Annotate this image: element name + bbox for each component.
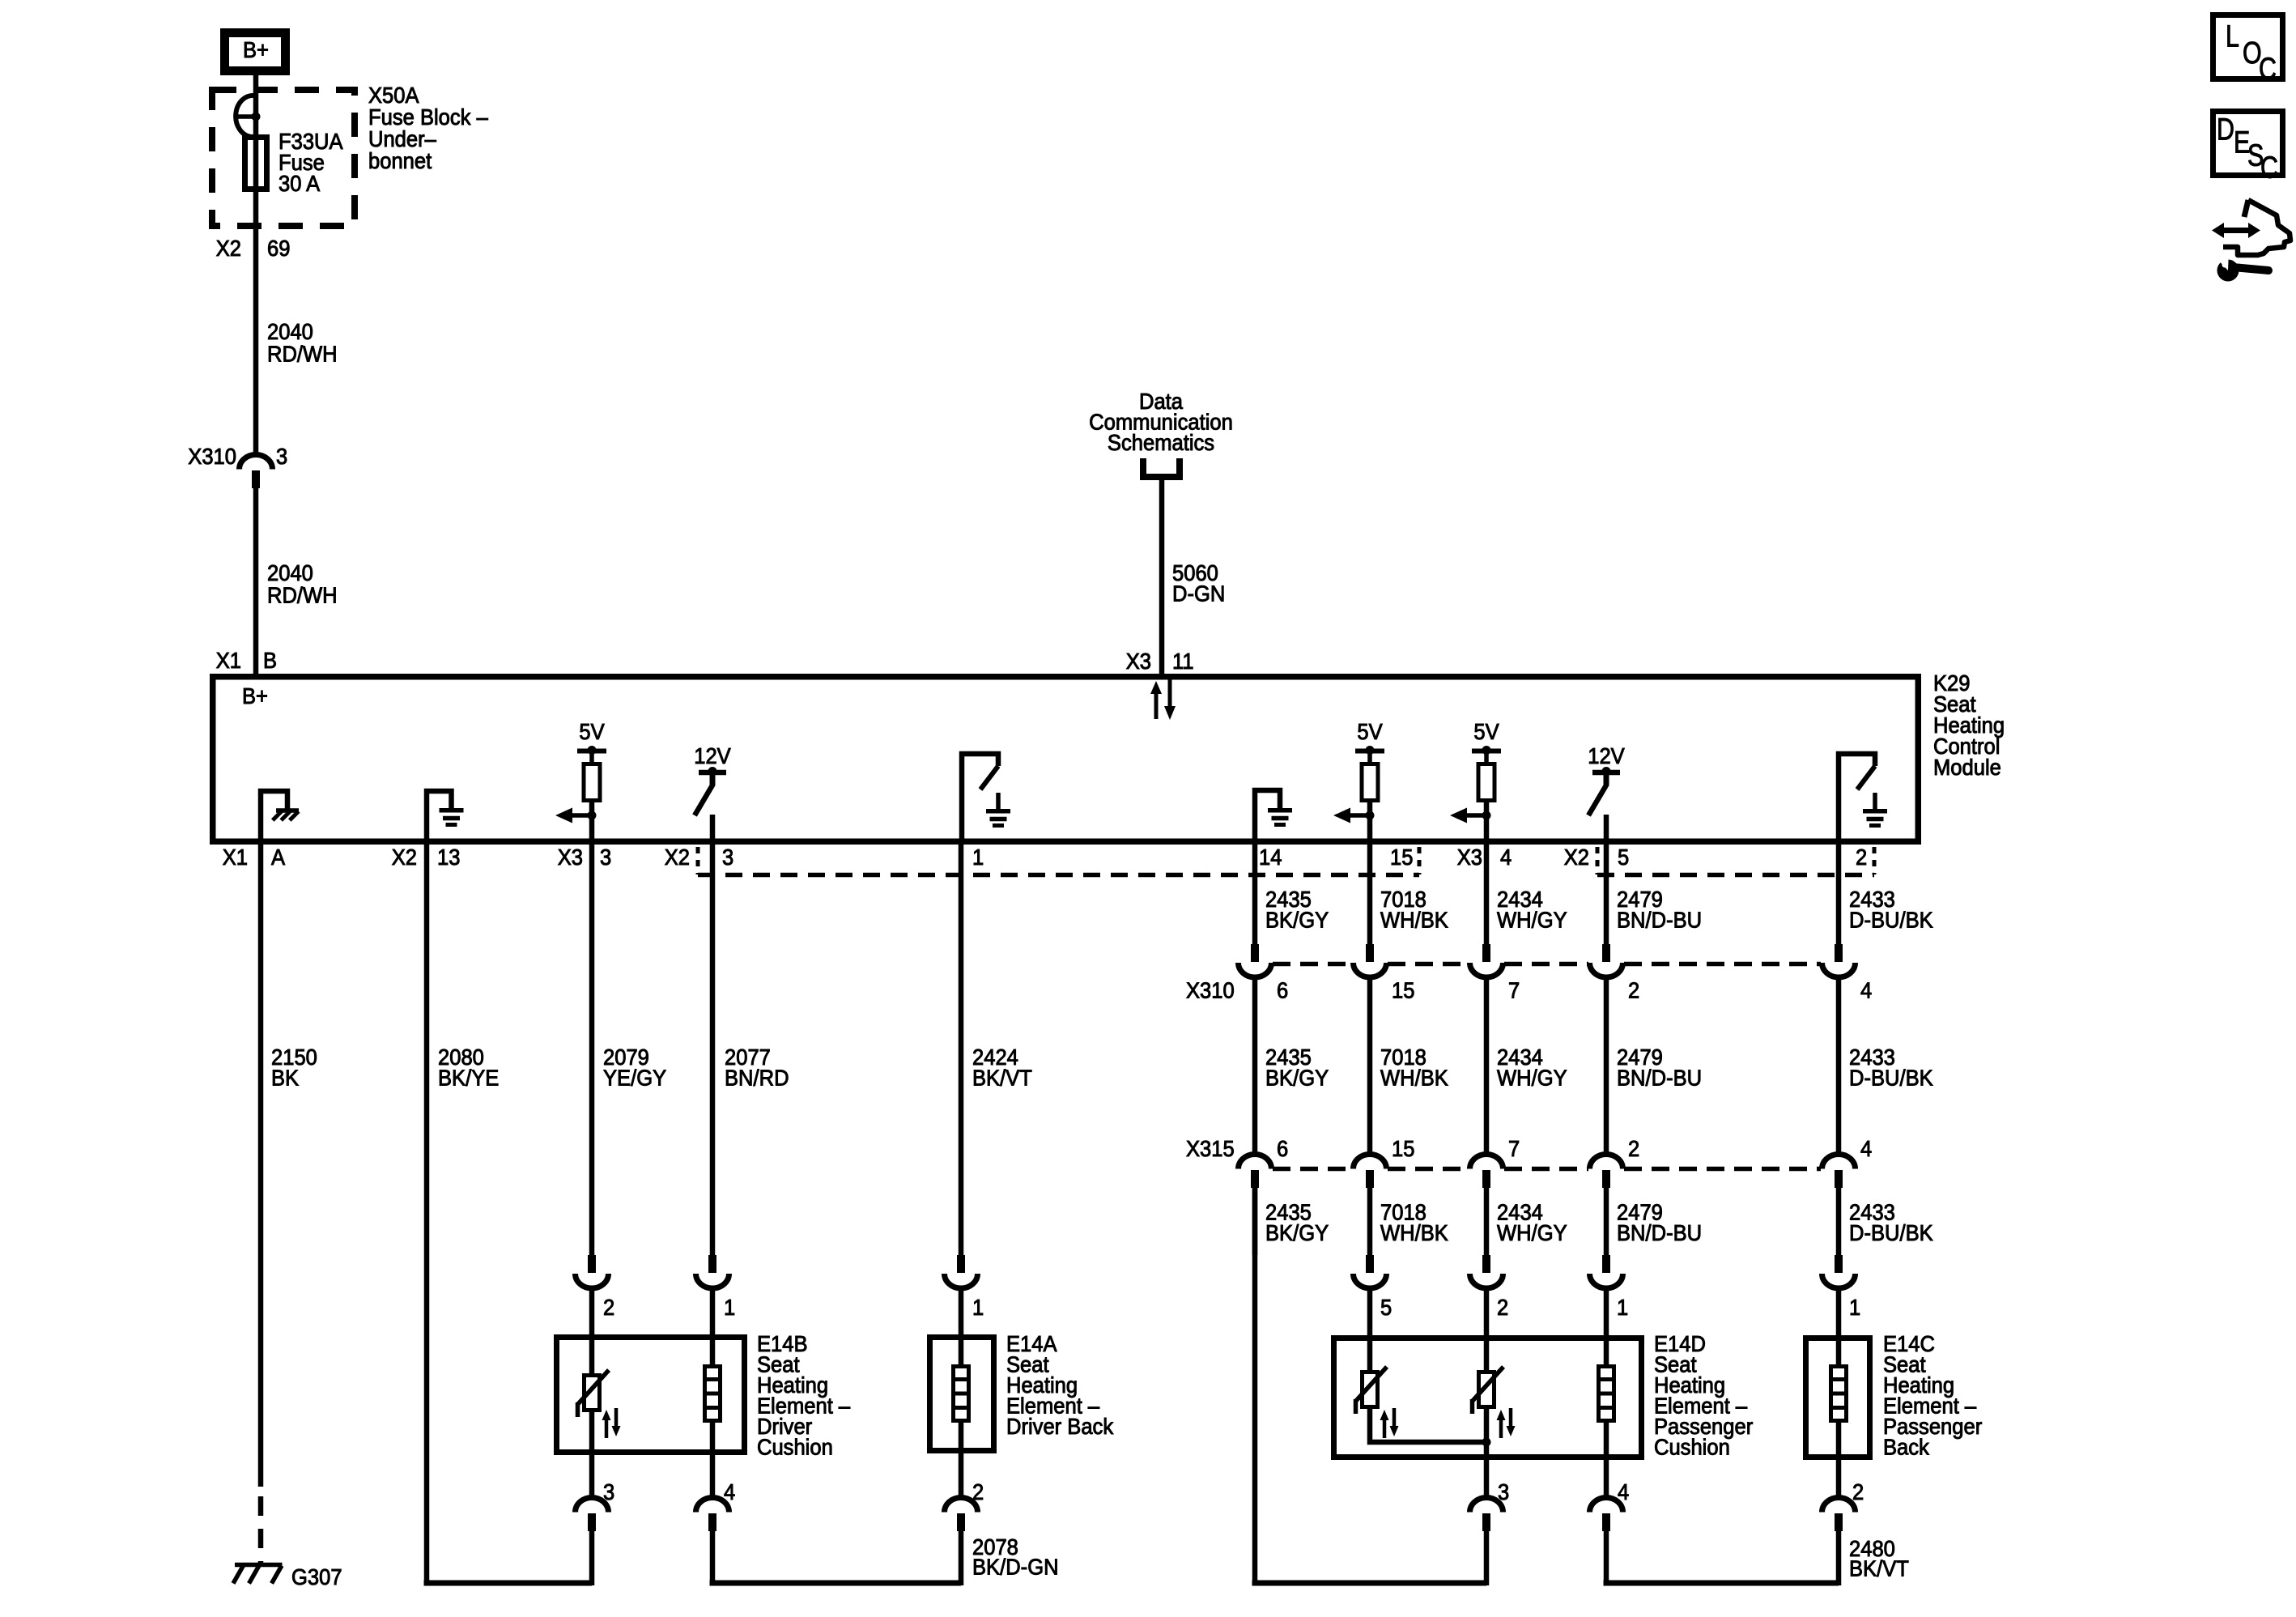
wire label 7018 WH/BK (row 3): [1380, 1200, 1448, 1246]
wire 2079 YE/GY (pin X3-3 to E14B pin 2): [589, 843, 595, 1255]
5V supply bar/tap: [577, 749, 606, 754]
12V supply label at x=880: [694, 743, 731, 768]
wire label 7018 WH/BK (row 1): [1380, 887, 1448, 933]
svg-text:X1: X1: [216, 648, 241, 673]
heating element resistor: [1599, 1367, 1614, 1421]
element E14A label: [1006, 1331, 1114, 1439]
wire below switch: [710, 815, 716, 844]
5V supply label at x=731: [579, 719, 605, 744]
sense arrow: [572, 813, 592, 818]
wire below resistor: [1484, 802, 1490, 844]
pin label X3 (module): [1126, 649, 1151, 674]
pin label X1 (module): [216, 648, 241, 673]
pin label 1 (E14C): [1849, 1295, 1860, 1320]
pin label 1 (E14B): [724, 1295, 735, 1320]
inline connector on 2433 at E14C pin 1: [1835, 1255, 1843, 1273]
pin label 3: [722, 845, 733, 870]
E14B thermistor branch wire: [589, 1335, 595, 1375]
high-side switch blade: [695, 784, 713, 815]
module K29 Seat Heating Control Module box: [213, 677, 1919, 842]
connector below E14C pin 2: [1836, 1460, 1842, 1500]
connector below E14D pin 4: [1604, 1460, 1609, 1500]
pin label 2 (E14A): [972, 1479, 984, 1504]
svg-text:5: 5: [1618, 845, 1629, 870]
svg-text:15: 15: [1390, 845, 1413, 870]
pin label X3: [558, 845, 583, 870]
connector X310 pin 3 (inline): [240, 455, 273, 470]
wire label 2079 YE/GY: [603, 1045, 666, 1091]
high-side switch blade: [1588, 784, 1607, 815]
svg-text:4: 4: [1860, 978, 1872, 1003]
pin label X2: [665, 845, 690, 870]
thermistor (NTC): [585, 1376, 600, 1411]
pull-up resistor: [1362, 764, 1378, 801]
wire below resistor: [589, 802, 595, 844]
pin label 3 (E14D): [1498, 1479, 1509, 1504]
svg-text:15: 15: [1392, 978, 1414, 1003]
E14A heater wire: [959, 1335, 964, 1366]
svg-text:5060D-GN: 5060D-GN: [1172, 560, 1225, 606]
E14D thermistor 2: [1484, 1335, 1490, 1372]
connector X315 pin 6: [1239, 1155, 1272, 1169]
X310 pin 2 label: [1628, 978, 1639, 1003]
wire 2150 BK (pin X1-A to G307): [258, 843, 264, 1487]
svg-text:X3: X3: [1126, 649, 1151, 674]
X315 pin 2 label: [1628, 1136, 1639, 1161]
svg-text:5V: 5V: [1357, 719, 1383, 744]
pin label 69 (fuse block): [267, 236, 290, 261]
5V supply label at x=1692: [1357, 719, 1383, 744]
connector below E14D pin 3: [1484, 1460, 1490, 1500]
X310 pin 15 label: [1392, 978, 1414, 1003]
pull-up resistor: [584, 764, 600, 801]
DESC reference box: [2213, 112, 2283, 176]
E14D heater: [1604, 1335, 1609, 1366]
pin label 3: [276, 444, 287, 469]
svg-text:15: 15: [1392, 1136, 1414, 1161]
pin label 5 (E14D): [1380, 1295, 1392, 1320]
LOC letter C: [2259, 53, 2277, 87]
connector X315 pin 15: [1354, 1155, 1387, 1169]
svg-text:5V: 5V: [579, 719, 605, 744]
svg-text:13: 13: [437, 845, 460, 870]
wire 5060 D-GN: [1159, 477, 1165, 676]
heating element resistor: [1831, 1367, 1847, 1421]
wire 7018 WH/BK column at x=1692: [1367, 843, 1373, 944]
svg-text:X2: X2: [665, 845, 690, 870]
off-page reference: Data Communication Schematics: [1089, 389, 1233, 455]
DESC letter E: [2234, 126, 2250, 160]
svg-text:C: C: [2260, 151, 2278, 185]
fuse F33UA 30 A: [245, 138, 267, 189]
module K29 label: [1933, 670, 2005, 780]
connector label X310: [188, 444, 236, 469]
connector boundary dashed stubs: [696, 847, 700, 874]
element E14D label: [1654, 1331, 1753, 1460]
LOC letter L: [2226, 20, 2239, 54]
sense arrow: [1350, 813, 1370, 818]
connector X310 row label: [1186, 978, 1235, 1003]
svg-text:X2: X2: [1564, 845, 1589, 870]
5V supply label at x=1836: [1473, 719, 1499, 744]
svg-text:14: 14: [1259, 845, 1282, 870]
off-page connector bracket: [1143, 458, 1180, 477]
pin label 5: [1618, 845, 1629, 870]
X310 pin 4 label: [1860, 978, 1872, 1003]
inline connector on 2424: [957, 1255, 965, 1273]
inline connector on 2079: [588, 1255, 596, 1273]
svg-text:D: D: [2217, 113, 2234, 147]
thermistor (NTC): [1363, 1372, 1378, 1407]
wire label 2434 WH/GY (row 2): [1497, 1045, 1567, 1091]
wire label 2480 BK/VT: [1849, 1536, 1909, 1581]
wrench icon: [2233, 267, 2268, 270]
wire label 2040 RD/WH (upper): [267, 319, 338, 367]
connector boundary dashed line (left segment): [698, 873, 1419, 878]
svg-text:B+: B+: [243, 37, 269, 62]
seat heating element E14C box (passenger back): [1806, 1338, 1870, 1457]
12V supply bar/tap: [1592, 770, 1620, 776]
LOC reference box: [2213, 15, 2283, 79]
pin label 15: [1390, 845, 1413, 870]
svg-text:X1: X1: [223, 845, 248, 870]
wire label 2433 D-BU/BK (row 3): [1849, 1200, 1933, 1246]
wire below switch: [1604, 815, 1609, 844]
5V supply bar/tap: [1472, 749, 1501, 754]
svg-text:1: 1: [972, 1295, 984, 1320]
heating element resistor: [954, 1367, 969, 1421]
svg-text:1: 1: [1849, 1295, 1860, 1320]
wire label 2435 BK/GY (row 2): [1265, 1045, 1329, 1091]
svg-text:6: 6: [1277, 1136, 1288, 1161]
wire label 2424 BK/VT: [972, 1045, 1032, 1091]
pin label X2 (fuse block): [216, 236, 241, 261]
svg-text:B: B: [263, 648, 277, 673]
inline connector on 2479 at E14D pin 1: [1602, 1255, 1610, 1273]
pin label A: [271, 845, 285, 870]
connector X315 pin 2: [1590, 1155, 1623, 1169]
pin label X2: [392, 845, 417, 870]
svg-text:12V: 12V: [1588, 743, 1625, 768]
svg-text:X2: X2: [216, 236, 241, 261]
pin label X2: [1564, 845, 1589, 870]
pin label 4 (E14B): [724, 1479, 735, 1504]
wire 2424 BK/VT (pin 1 to E14A pin 1): [959, 843, 964, 1255]
seat heating element E14D box (passenger cushion): [1334, 1338, 1642, 1457]
internal ground: [1873, 793, 1877, 811]
X315 pin 15 label: [1392, 1136, 1414, 1161]
wire label 2479 BN/D-BU (row 3): [1617, 1200, 1702, 1246]
double-headed arrow: [2223, 228, 2249, 233]
internal chassis ground (pin X1-A): [261, 791, 287, 844]
svg-text:2: 2: [1856, 845, 1867, 870]
svg-text:X315: X315: [1186, 1136, 1235, 1161]
svg-text:B+: B+: [242, 683, 268, 709]
svg-text:1: 1: [1617, 1295, 1628, 1320]
wire label 2435 BK/GY (row 1): [1265, 887, 1329, 933]
wire label 2479 BN/D-BU (row 1): [1617, 887, 1702, 933]
LOC letter O: [2243, 36, 2262, 70]
pin label 2: [1856, 845, 1867, 870]
pin label 1 (E14D): [1617, 1295, 1628, 1320]
pin label X3: [1457, 845, 1482, 870]
12V supply bar/tap: [699, 770, 726, 776]
wire 2479 BN/D-BU column at x=1984: [1604, 843, 1609, 944]
inline connector on 2077: [708, 1255, 716, 1273]
wire B+ to module (circuit 2040): [253, 73, 259, 455]
svg-text:3: 3: [722, 845, 733, 870]
X315 row dashed connector line: [1273, 1167, 1352, 1172]
X310 pin 7 label: [1508, 978, 1520, 1003]
wire label 2435 BK/GY (row 3): [1265, 1200, 1329, 1246]
connector X310 pin 2: [1602, 944, 1610, 962]
connector X315 pin 7: [1470, 1155, 1503, 1169]
DESC letter S: [2247, 139, 2264, 173]
wire label 5060 D-GN: [1172, 560, 1225, 606]
DESC letter D: [2217, 113, 2234, 147]
inline connector on 2434 at E14D pin 2: [1482, 1255, 1490, 1273]
battery positive terminal B+: [225, 33, 286, 71]
pin label 1 (E14A): [972, 1295, 984, 1320]
connector boundary dashed line (right segment): [1597, 873, 1874, 878]
svg-text:X310: X310: [188, 444, 236, 469]
wire label 2479 BN/D-BU (row 2): [1617, 1045, 1702, 1091]
pin label X1: [223, 845, 248, 870]
wire label 2433 D-BU/BK (row 2): [1849, 1045, 1933, 1091]
internal node label B+: [242, 683, 268, 709]
internal earth ground (pin X2-13): [427, 791, 452, 844]
svg-text:7: 7: [1508, 1136, 1520, 1161]
wire label 7018 WH/BK (row 2): [1380, 1045, 1448, 1091]
svg-text:12V: 12V: [694, 743, 731, 768]
pin label 4: [1500, 845, 1512, 870]
connector below E14B pin 3: [589, 1455, 595, 1500]
pin label B (module): [263, 648, 277, 673]
temperature variation arrows: [1383, 1419, 1387, 1438]
svg-text:X2: X2: [392, 845, 417, 870]
svg-text:2: 2: [1628, 1136, 1639, 1161]
svg-text:5: 5: [1380, 1295, 1392, 1320]
svg-text:G307: G307: [291, 1564, 342, 1589]
svg-text:X310: X310: [1186, 978, 1235, 1003]
low-side driver switch: [962, 754, 998, 844]
svg-text:3: 3: [276, 444, 287, 469]
wire label 2040 RD/WH (lower): [267, 560, 338, 608]
serial data bidirectional arrows: [1154, 692, 1159, 719]
seat heating element E14B box (driver cushion): [557, 1338, 745, 1453]
svg-text:6: 6: [1277, 978, 1288, 1003]
svg-text:2: 2: [1852, 1479, 1864, 1504]
internal earth ground hook (pin 14): [1255, 790, 1280, 844]
5V supply bar/tap: [1355, 749, 1384, 754]
svg-text:2: 2: [1497, 1295, 1508, 1320]
E14D thermistor link wire: [1370, 1407, 1486, 1442]
vehicle front icon: [2244, 200, 2248, 217]
connector X310 pin 6: [1251, 944, 1259, 962]
wire 2078 BK/D-GN: [710, 1530, 716, 1585]
svg-text:2: 2: [603, 1295, 614, 1320]
connector X310 pin 7: [1482, 944, 1490, 962]
fuse block X50A dashed outline: [212, 90, 355, 226]
temperature variation arrows: [1499, 1419, 1503, 1438]
pin label 3 (E14B): [603, 1479, 614, 1504]
internal ground: [996, 793, 1001, 811]
svg-text:1: 1: [724, 1295, 735, 1320]
connector X310 pin 15: [1366, 944, 1374, 962]
pin label 13: [437, 845, 460, 870]
element E14C label: [1883, 1331, 1982, 1460]
wire 2080 BK/YE (pin X2-13 to E14B pin 3): [424, 843, 430, 1585]
12V supply label at x=1984: [1588, 743, 1625, 768]
connector below E14B pin 4: [710, 1455, 716, 1500]
seat heating element E14A box (driver back): [930, 1338, 994, 1451]
pin label 2 (E14C): [1852, 1479, 1864, 1504]
fuse F33UA label: [278, 129, 343, 196]
connector below E14A pin 2: [959, 1453, 964, 1500]
inline connector on 7018 at E14D pin 5: [1366, 1255, 1374, 1273]
pin label 3: [600, 845, 611, 870]
svg-text:11: 11: [1172, 649, 1194, 674]
wire label 2433 D-BU/BK (row 1): [1849, 887, 1933, 933]
ground G307 chassis symbol: [235, 1563, 283, 1568]
fuse block X50A label: [368, 83, 488, 173]
pin label 4 (E14D): [1618, 1479, 1629, 1504]
wire label 2434 WH/GY (row 1): [1497, 887, 1567, 933]
thermistor (NTC): [1479, 1372, 1495, 1407]
wire 2435 BK/GY column at x=1550: [1252, 843, 1258, 944]
pin label 2 (E14B): [603, 1295, 614, 1320]
wire 2434 WH/GY column at x=1836: [1484, 843, 1490, 944]
connector X315 pin 4: [1822, 1155, 1856, 1169]
wire label 2078 BK/D-GN: [972, 1534, 1059, 1580]
connector X315 row label: [1186, 1136, 1235, 1161]
wire below resistor: [1367, 802, 1373, 844]
E14B heater branch wire: [710, 1335, 716, 1366]
X315 pin 7 label: [1508, 1136, 1520, 1161]
svg-text:C: C: [2259, 53, 2277, 87]
wire 2433 D-BU/BK column at x=2271: [1836, 843, 1842, 944]
wire label 2077 BN/RD: [725, 1045, 789, 1091]
svg-text:69: 69: [267, 236, 290, 261]
svg-text:1: 1: [972, 845, 984, 870]
X315 pin 4 label: [1860, 1136, 1872, 1161]
E14D thermistor 1: [1367, 1335, 1373, 1372]
element E14B label: [757, 1331, 850, 1460]
ground label G307: [291, 1564, 342, 1589]
X315 pin 6 label: [1277, 1136, 1288, 1161]
svg-text:L: L: [2226, 20, 2239, 54]
pin label 1: [972, 845, 984, 870]
wire label 2080 BK/YE: [438, 1045, 499, 1091]
wire 2077 BN/RD (pin X2-3 to E14B pin 1): [710, 843, 716, 1255]
wire 2480 BK/VT: [1604, 1530, 1609, 1585]
X310 row dashed connector line: [1273, 962, 1352, 967]
svg-text:7: 7: [1508, 978, 1520, 1003]
wire label 2150 BK: [271, 1045, 317, 1091]
svg-text:4: 4: [1860, 1136, 1872, 1161]
pin label 2 (E14D): [1497, 1295, 1508, 1320]
svg-text:3: 3: [600, 845, 611, 870]
svg-text:4: 4: [1500, 845, 1512, 870]
wire label 2434 WH/GY (row 3): [1497, 1200, 1567, 1246]
svg-text:2: 2: [1628, 978, 1639, 1003]
svg-text:A: A: [271, 845, 285, 870]
pin label 14: [1259, 845, 1282, 870]
pull-up resistor: [1478, 764, 1495, 801]
connector X310 pin 4: [1835, 944, 1843, 962]
X310 pin 6 label: [1277, 978, 1288, 1003]
svg-text:X3: X3: [1457, 845, 1482, 870]
E14C heater wire: [1836, 1335, 1842, 1366]
svg-text:5V: 5V: [1473, 719, 1499, 744]
temperature variation arrows: [605, 1419, 609, 1438]
sense arrow: [1467, 813, 1486, 818]
DESC letter C: [2260, 151, 2278, 185]
wire 2435 long drop to bottom: [1252, 1186, 1258, 1585]
pin label 11 (module): [1172, 649, 1194, 674]
svg-text:X3: X3: [558, 845, 583, 870]
fuse block clip terminal: [236, 96, 257, 137]
heating element resistor: [705, 1367, 721, 1421]
low-side driver switch: [1839, 754, 1875, 844]
